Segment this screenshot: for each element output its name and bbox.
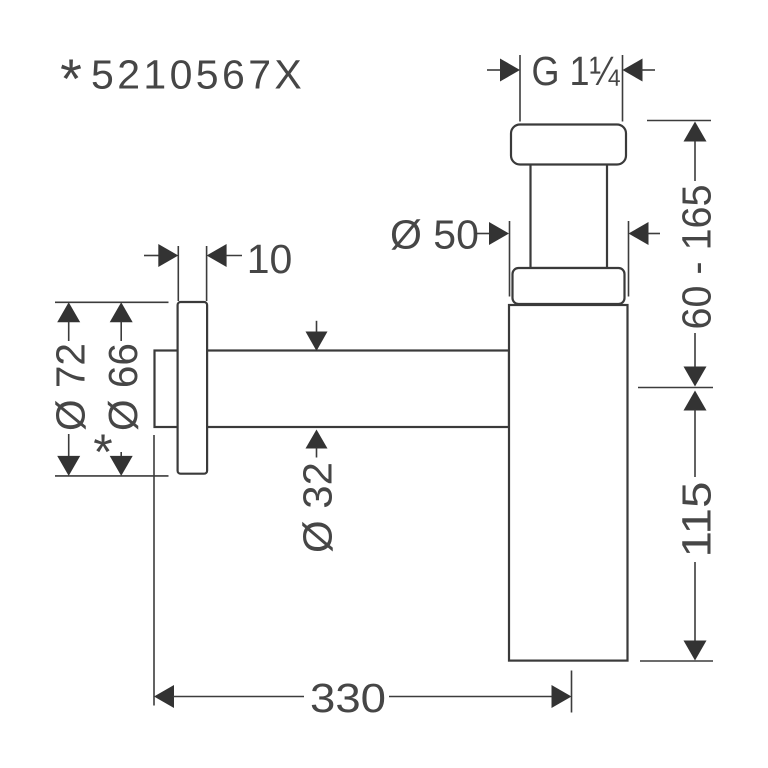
svg-text:Ø 72: Ø 72	[48, 343, 94, 431]
wall rosette (10 mm escutcheon)	[178, 302, 208, 474]
part number *5210567X	[60, 47, 305, 110]
trap body	[509, 305, 628, 661]
svg-text:10: 10	[247, 236, 293, 282]
riser tube	[531, 163, 608, 268]
dimension 10	[144, 236, 292, 301]
upper escutcheon flange	[513, 268, 625, 304]
svg-text:*: *	[93, 424, 112, 480]
svg-text:G 1¼: G 1¼	[532, 48, 621, 94]
top nut	[511, 125, 626, 165]
dimension 115	[640, 391, 720, 662]
svg-text:115: 115	[674, 482, 720, 558]
svg-text:Ø 66: Ø 66	[100, 343, 146, 431]
svg-text:60 - 165: 60 - 165	[674, 185, 720, 330]
dimension diameter 50	[390, 211, 660, 296]
dimension diameter 66 with asterisk	[93, 302, 146, 480]
svg-text:Ø 32: Ø 32	[295, 462, 341, 553]
dimension diameter 72	[48, 302, 169, 476]
dimension 330	[154, 435, 572, 721]
dimension G 1 1/4	[487, 48, 655, 122]
svg-text:330: 330	[310, 675, 386, 721]
dimension 60 - 165	[638, 121, 720, 388]
svg-text:*: *	[60, 47, 82, 110]
pipe (horizontal outlet pipe)	[155, 351, 510, 428]
svg-text:5210567X: 5210567X	[91, 52, 305, 98]
svg-text:Ø 50: Ø 50	[390, 211, 479, 257]
dimension diameter 32	[295, 321, 341, 553]
